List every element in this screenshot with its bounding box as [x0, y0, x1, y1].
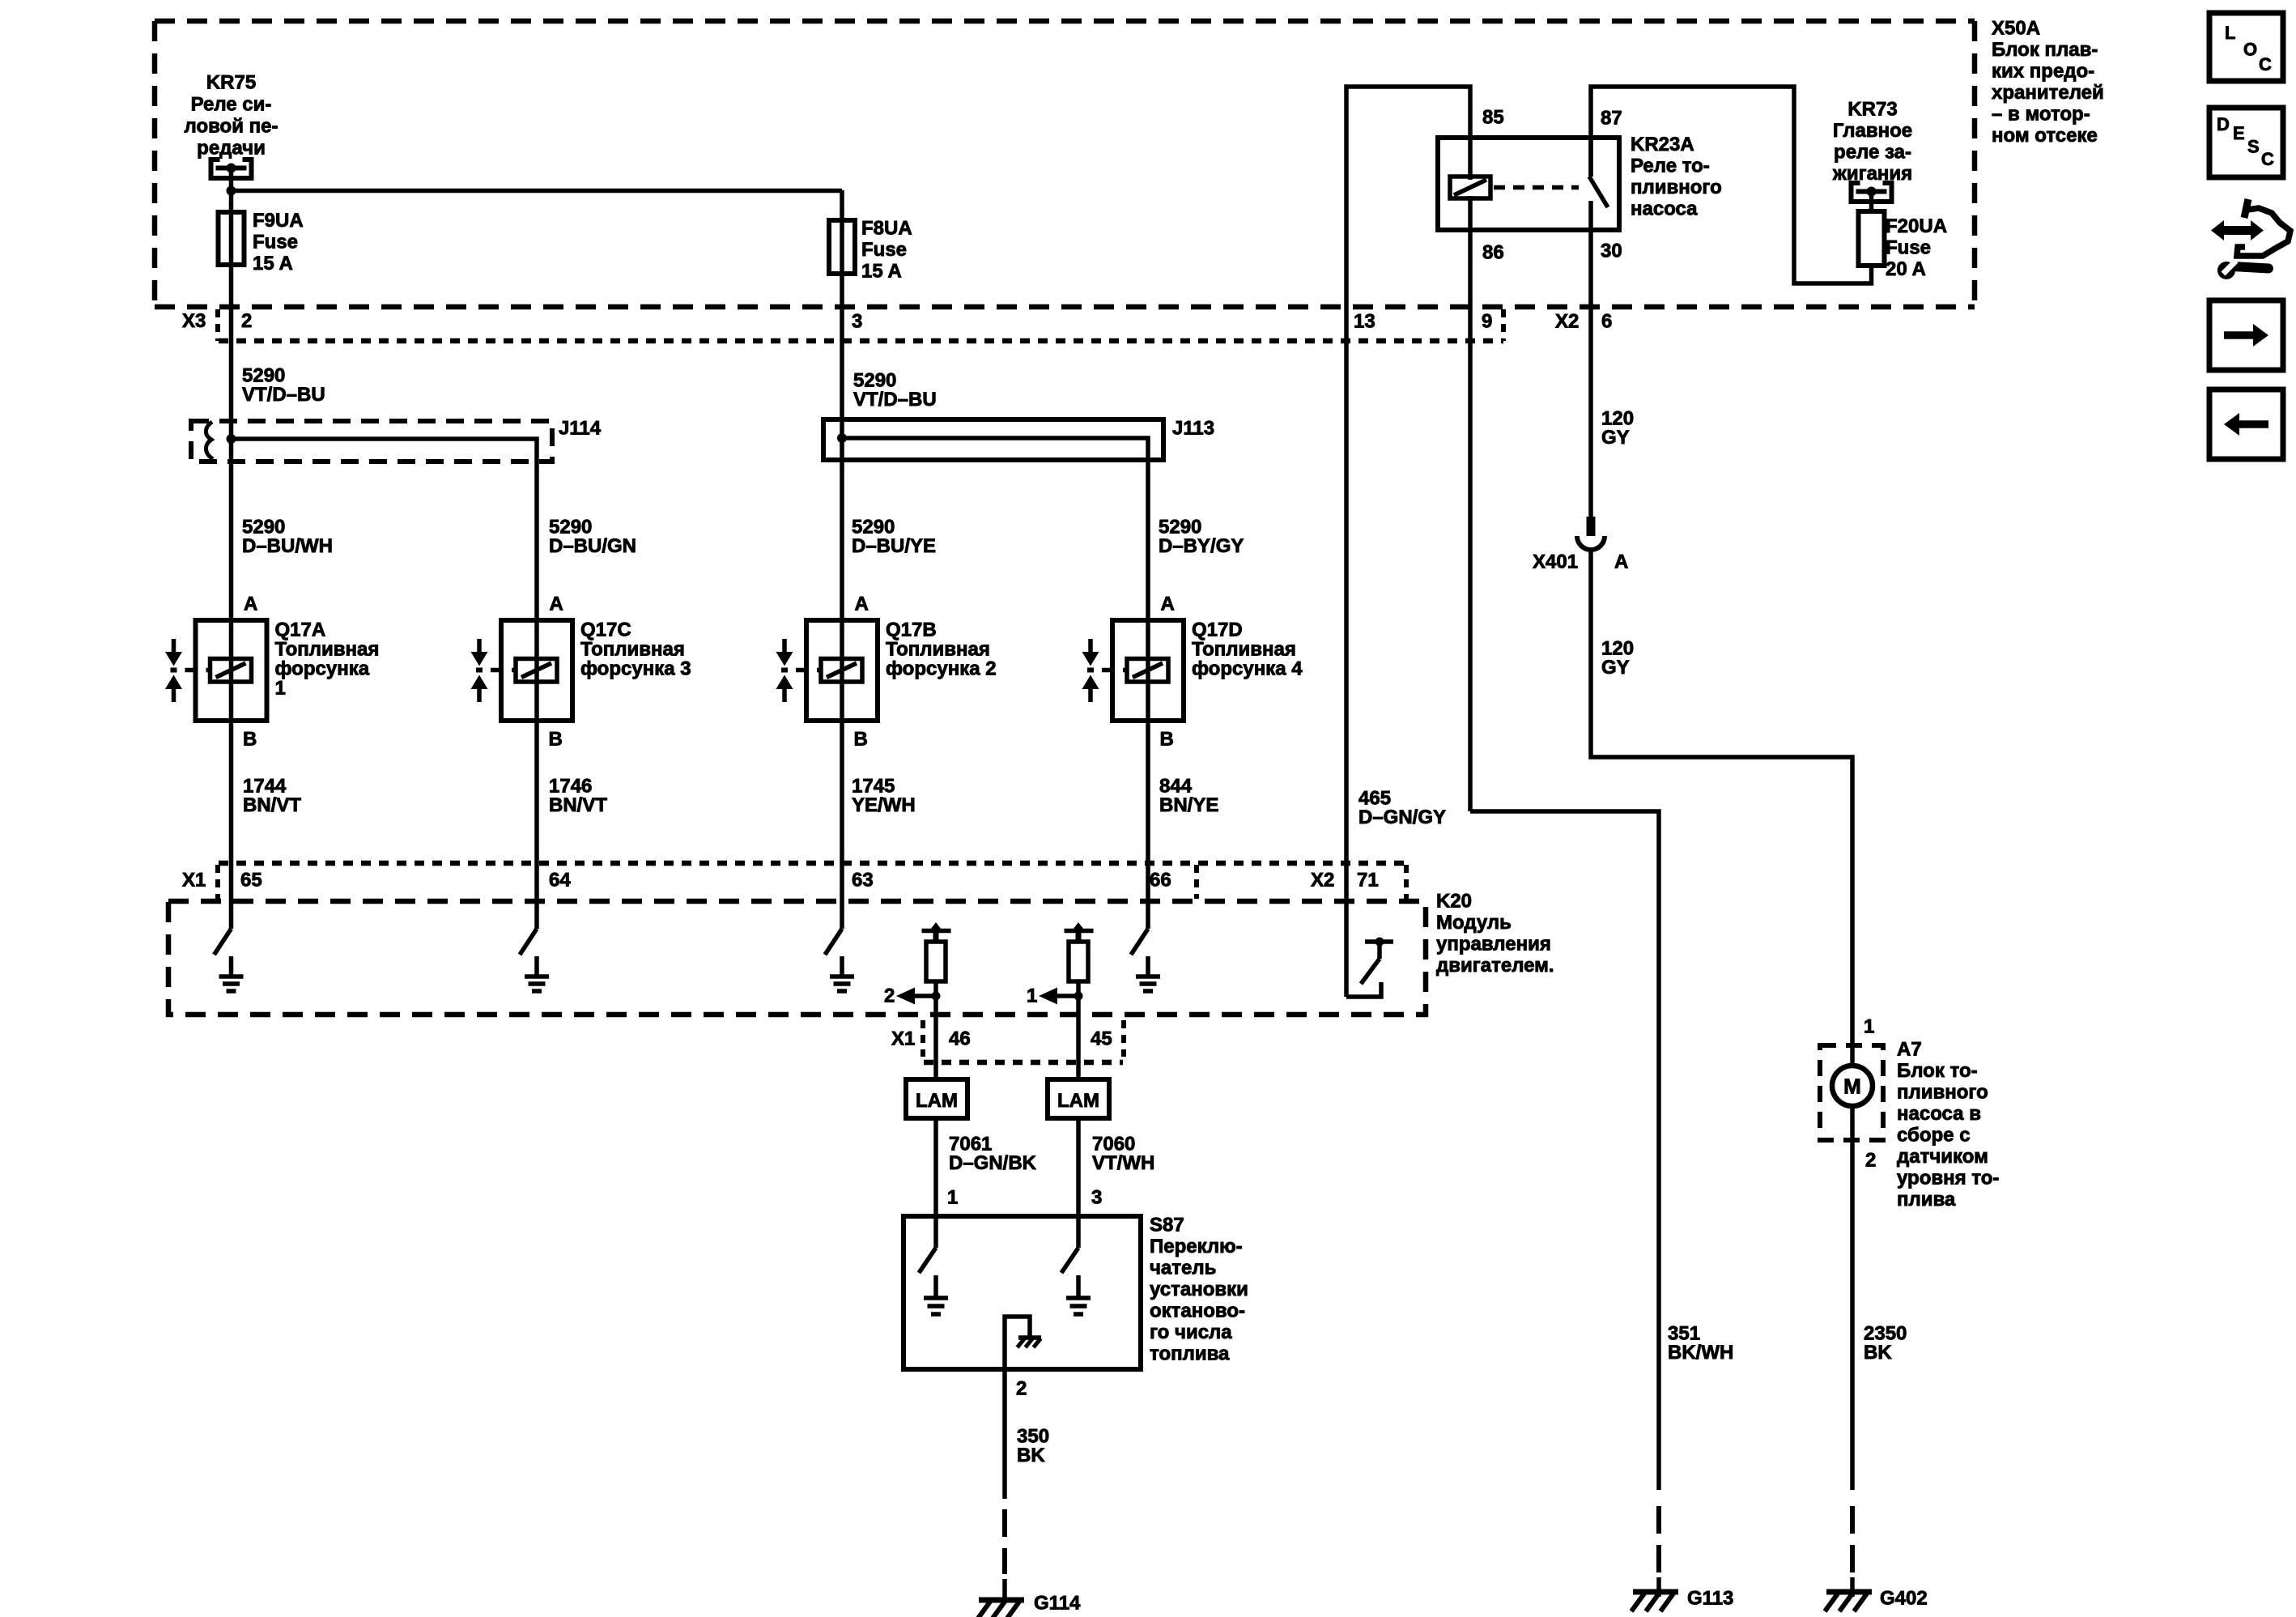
svg-text:30: 30	[1601, 240, 1622, 262]
svg-text:F20UA: F20UA	[1886, 215, 1947, 237]
wire 351 BK/WH from X3-9 to ground G113	[1470, 811, 1659, 1490]
icon forward arrow	[2209, 300, 2283, 370]
svg-text:X1: X1	[182, 870, 206, 891]
wire KR73 to fuse F20UA	[1869, 192, 1874, 212]
svg-text:2: 2	[1016, 1378, 1027, 1400]
wire 120 GY from X401 to A7 pin 1	[1591, 551, 1852, 1066]
svg-text:Главное: Главное	[1833, 120, 1912, 142]
svg-text:A: A	[855, 594, 869, 615]
svg-text:хранителей: хранителей	[1992, 82, 2104, 104]
junction at J114	[227, 434, 236, 444]
svg-text:65: 65	[240, 870, 262, 891]
svg-text:87: 87	[1601, 108, 1622, 130]
svg-text:редачи: редачи	[197, 138, 266, 160]
svg-text:1: 1	[275, 678, 286, 700]
splice J114 crimp symbol	[206, 422, 213, 459]
relay KR23A coil-contact dashed link	[1494, 185, 1579, 190]
wire KR23A pin 87 to F20UA loop	[1591, 87, 1872, 283]
icon backward arrow	[2209, 389, 2283, 459]
wire J113 bus to injector 4	[842, 438, 1148, 622]
svg-text:C: C	[2261, 149, 2274, 169]
svg-text:– в мотор-: – в мотор-	[1992, 104, 2090, 126]
svg-text:X2: X2	[1311, 870, 1334, 891]
svg-text:BK: BK	[1017, 1445, 1045, 1466]
lamp driver module LAM (left)	[906, 1079, 967, 1118]
svg-text:1: 1	[947, 1187, 958, 1209]
motor M symbol (A7 fuel pump)	[1832, 1066, 1873, 1106]
injector Q17B valve symbol	[782, 639, 787, 653]
wire K20 pin 45 to LAM	[1076, 1016, 1081, 1080]
svg-text:6: 6	[1601, 311, 1612, 333]
svg-text:A: A	[1161, 594, 1175, 615]
ground symbol (pin 66 driver)	[1146, 956, 1150, 977]
svg-text:VT/D–BU: VT/D–BU	[242, 384, 325, 406]
svg-text:46: 46	[949, 1028, 971, 1050]
svg-text:G402: G402	[1880, 1588, 1928, 1610]
svg-text:Q17B: Q17B	[886, 619, 937, 641]
svg-text:ловой пе-: ловой пе-	[185, 116, 278, 138]
injector Q17C valve symbol	[477, 639, 482, 653]
ground symbol (pin 64 driver)	[534, 956, 539, 977]
svg-text:Fuse: Fuse	[1886, 237, 1931, 259]
S87 switch arm and ground (pin 1)	[919, 1248, 936, 1273]
svg-text:BN/VT: BN/VT	[243, 794, 301, 816]
K20 driver switch for pin 64	[520, 929, 537, 955]
svg-text:BN/YE: BN/YE	[1159, 794, 1218, 816]
svg-text:71: 71	[1357, 870, 1379, 891]
svg-text:85: 85	[1482, 107, 1504, 129]
junction at KR75 output	[227, 186, 236, 196]
injector Q17A outer box	[196, 620, 267, 721]
svg-text:форсунка: форсунка	[275, 658, 370, 680]
svg-text:A: A	[1614, 551, 1628, 573]
svg-text:VT/WH: VT/WH	[1092, 1152, 1154, 1174]
svg-text:3: 3	[852, 311, 862, 333]
wire J114 branch to injector 3	[232, 439, 538, 622]
wire through injector at x=1040	[840, 620, 844, 929]
svg-text:LAM: LAM	[1057, 1090, 1099, 1112]
svg-text:датчиком: датчиком	[1897, 1146, 1988, 1168]
svg-text:64: 64	[549, 870, 571, 891]
inline connector X401	[1587, 517, 1596, 536]
svg-text:X2: X2	[1555, 311, 1579, 333]
svg-text:A: A	[550, 594, 563, 615]
svg-text:насоса: насоса	[1631, 198, 1698, 220]
svg-text:Fuse: Fuse	[861, 239, 907, 261]
svg-text:BN/VT: BN/VT	[549, 794, 607, 816]
relay KR73 terminal symbol	[1852, 183, 1860, 201]
svg-text:1: 1	[1864, 1016, 1874, 1038]
fuse F8UA	[829, 220, 855, 274]
wire through injector at x=285.5	[229, 620, 234, 929]
svg-text:J114: J114	[559, 418, 602, 440]
svg-text:S87: S87	[1150, 1215, 1184, 1236]
injector Q17B coil	[821, 659, 862, 683]
svg-text:J113: J113	[1172, 418, 1214, 440]
svg-text:G114: G114	[1034, 1593, 1081, 1615]
fuel pump module A7 dashed box	[1820, 1045, 1883, 1140]
svg-text:Топливная: Топливная	[1192, 639, 1296, 661]
svg-text:пливного: пливного	[1897, 1082, 1988, 1104]
svg-text:X1: X1	[891, 1028, 915, 1050]
injector Q17B outer box	[806, 620, 878, 721]
svg-text:чатель: чатель	[1150, 1257, 1216, 1279]
svg-text:X50A: X50A	[1992, 18, 2040, 40]
svg-text:ном отсеке: ном отсеке	[1992, 125, 2098, 147]
svg-text:2: 2	[884, 985, 895, 1007]
svg-text:D: D	[2217, 114, 2230, 134]
connector X1 dotted row (K20 top)	[219, 861, 1406, 866]
S87 pin 3 wire into box	[1076, 1216, 1081, 1248]
injector Q17C coil	[516, 659, 557, 683]
svg-text:пливного: пливного	[1631, 177, 1722, 198]
svg-text:13: 13	[1354, 311, 1375, 333]
icon wiring harness with double arrow and wrench	[2211, 220, 2224, 240]
relay KR23A coil	[1450, 177, 1490, 198]
svg-text:1: 1	[1027, 985, 1037, 1007]
svg-text:GY: GY	[1601, 427, 1630, 449]
connector X3 dotted row	[219, 338, 1503, 344]
svg-text:Блок плав-: Блок плав-	[1992, 39, 2098, 61]
svg-text:X3: X3	[182, 310, 206, 332]
svg-text:G113: G113	[1687, 1588, 1733, 1610]
wire KR23A pin 86 to X3 pin 9	[1468, 196, 1473, 811]
svg-text:63: 63	[852, 870, 874, 891]
svg-text:Модуль: Модуль	[1436, 912, 1512, 934]
svg-text:VT/D–BU: VT/D–BU	[853, 389, 937, 411]
svg-text:F8UA: F8UA	[861, 218, 912, 240]
injector Q17A coil	[210, 659, 252, 683]
svg-text:15 A: 15 A	[253, 253, 293, 274]
svg-text:октаново-: октаново-	[1150, 1300, 1245, 1322]
svg-text:BK: BK	[1864, 1342, 1892, 1364]
fuse block X50A dashed border	[155, 19, 1975, 24]
svg-text:управления: управления	[1436, 934, 1551, 955]
svg-text:KR75: KR75	[206, 72, 256, 94]
junction at J113	[837, 433, 847, 443]
switch S87 box	[904, 1216, 1141, 1369]
ground symbol (pin 65 driver)	[229, 956, 234, 977]
svg-text:D–GN/GY: D–GN/GY	[1358, 806, 1446, 828]
svg-text:9: 9	[1482, 311, 1492, 333]
svg-text:A: A	[244, 594, 257, 615]
svg-text:X401: X401	[1533, 551, 1578, 573]
svg-text:насоса в: насоса в	[1897, 1103, 1981, 1125]
wire through injector at x=663	[534, 620, 539, 929]
wire fused feed to X3 pin 2	[229, 190, 234, 622]
svg-text:Реле си-: Реле си-	[191, 94, 272, 116]
splice J114 dashed box	[191, 421, 552, 462]
svg-text:Топливная: Топливная	[886, 639, 990, 661]
svg-text:L: L	[2225, 23, 2235, 43]
svg-text:LAM: LAM	[916, 1090, 958, 1112]
svg-text:B: B	[1160, 729, 1174, 751]
wire through injector at x=1418	[1146, 620, 1150, 929]
svg-text:D–BU/YE: D–BU/YE	[852, 535, 936, 557]
icon DESC	[2209, 108, 2283, 177]
svg-text:O: O	[2243, 40, 2257, 60]
K20 internal resistor to pin 46	[922, 929, 951, 934]
svg-text:Топливная: Топливная	[580, 639, 685, 661]
svg-text:Q17C: Q17C	[580, 619, 631, 641]
svg-text:K20: K20	[1436, 891, 1472, 913]
splice J113 box	[823, 419, 1163, 460]
svg-text:Q17A: Q17A	[275, 619, 326, 641]
svg-text:го числа: го числа	[1150, 1321, 1232, 1343]
svg-text:YE/WH: YE/WH	[852, 794, 916, 816]
K20 internal resistor to pin 45	[1065, 929, 1094, 934]
svg-text:топлива: топлива	[1150, 1343, 1230, 1365]
svg-text:установки: установки	[1150, 1279, 1248, 1300]
svg-text:Реле то-: Реле то-	[1631, 155, 1710, 177]
svg-text:D–BU/WH: D–BU/WH	[242, 535, 333, 557]
svg-text:2: 2	[1865, 1150, 1876, 1172]
wire X3-13 up and over to KR23A pin 85	[1346, 87, 1470, 997]
svg-text:Блок то-: Блок то-	[1897, 1060, 1978, 1082]
svg-text:сборе с: сборе с	[1897, 1125, 1971, 1147]
svg-text:форсунка 2: форсунка 2	[886, 658, 997, 680]
svg-text:реле за-: реле за-	[1834, 142, 1911, 164]
fuse F9UA	[219, 212, 244, 265]
ground G113	[1633, 1589, 1678, 1595]
svg-text:S: S	[2247, 137, 2260, 157]
svg-text:E: E	[2233, 123, 2245, 143]
svg-text:двигателем.: двигателем.	[1436, 955, 1554, 977]
svg-text:BK/WH: BK/WH	[1668, 1342, 1733, 1364]
svg-text:жигания: жигания	[1832, 163, 1912, 185]
svg-text:D–BU/GN: D–BU/GN	[549, 535, 636, 557]
ground symbol (pin 63 driver)	[840, 956, 844, 977]
svg-text:2: 2	[241, 310, 252, 332]
svg-text:45: 45	[1091, 1028, 1112, 1050]
svg-text:A7: A7	[1897, 1039, 1922, 1061]
K20 driver switch for pin 66	[1131, 929, 1148, 955]
wire 7061 D-GN/BK	[933, 1118, 938, 1218]
svg-text:15 A: 15 A	[861, 261, 902, 283]
svg-text:66: 66	[1150, 870, 1171, 891]
svg-text:Переклю-: Переклю-	[1150, 1236, 1243, 1257]
wire KR75 to junction	[229, 168, 234, 193]
module K20 dashed box	[168, 901, 1426, 1015]
ground G402	[1826, 1589, 1872, 1595]
K20 driver switch for pin 63	[825, 929, 842, 955]
wire K20 pin 46 to LAM	[933, 1016, 938, 1080]
wire 2350 BK from A7 pin 2 to ground G402	[1850, 1106, 1855, 1490]
svg-text:D–BY/GY: D–BY/GY	[1159, 535, 1244, 557]
injector Q17D coil	[1127, 659, 1168, 683]
wire fused feed to X3 pin 3	[840, 190, 844, 622]
svg-text:Q17D: Q17D	[1192, 619, 1243, 641]
svg-text:86: 86	[1482, 242, 1504, 264]
svg-text:уровня то-: уровня то-	[1897, 1168, 1999, 1189]
S87 switch arm and ground (pin 3)	[1061, 1248, 1078, 1273]
svg-text:форсунка 4: форсунка 4	[1192, 658, 1303, 680]
connector X1 row (K20 bottom, pins 46/45)	[924, 1060, 1123, 1066]
icon LOC	[2209, 13, 2283, 81]
injector Q17D outer box	[1112, 620, 1184, 721]
svg-text:F9UA: F9UA	[253, 210, 304, 232]
lamp driver module LAM (right)	[1048, 1079, 1109, 1118]
svg-text:20 A: 20 A	[1886, 258, 1926, 280]
svg-text:плива: плива	[1897, 1189, 1956, 1211]
svg-text:D–GN/BK: D–GN/BK	[949, 1152, 1037, 1174]
svg-text:KR73: KR73	[1847, 99, 1897, 121]
S87 common chassis ground	[1005, 1317, 1030, 1369]
injector Q17D valve symbol	[1088, 639, 1093, 653]
K20 fuel pump relay driver switch (pin 71)	[1365, 939, 1393, 944]
svg-text:3: 3	[1091, 1187, 1102, 1209]
relay KR23A switch contact	[1588, 138, 1593, 177]
svg-text:GY: GY	[1601, 657, 1630, 679]
relay KR75 terminal symbol	[211, 160, 220, 177]
ground G114	[979, 1598, 1024, 1603]
svg-text:B: B	[549, 729, 563, 751]
svg-text:ких предо-: ких предо-	[1992, 61, 2094, 83]
wire bus from KR75 to F8UA branch	[232, 189, 843, 194]
injector Q17A valve symbol	[172, 639, 176, 653]
wire 350 BK from S87 pin 2 to ground G114	[1002, 1369, 1007, 1499]
fuse F20UA	[1859, 211, 1885, 266]
svg-text:Fuse: Fuse	[253, 232, 298, 253]
svg-text:форсунка 3: форсунка 3	[580, 658, 691, 680]
relay KR23A box	[1438, 138, 1619, 230]
wire 7060 VT/WH	[1076, 1118, 1081, 1218]
svg-text:B: B	[243, 729, 257, 751]
svg-text:Топливная: Топливная	[275, 639, 380, 661]
svg-text:KR23A: KR23A	[1631, 134, 1694, 155]
S87 pin 1 wire into box	[933, 1216, 938, 1248]
svg-text:М: М	[1843, 1074, 1861, 1099]
K20 driver switch for pin 65	[215, 929, 232, 955]
svg-text:B: B	[854, 729, 868, 751]
injector Q17C outer box	[501, 620, 572, 721]
svg-text:C: C	[2259, 54, 2272, 74]
